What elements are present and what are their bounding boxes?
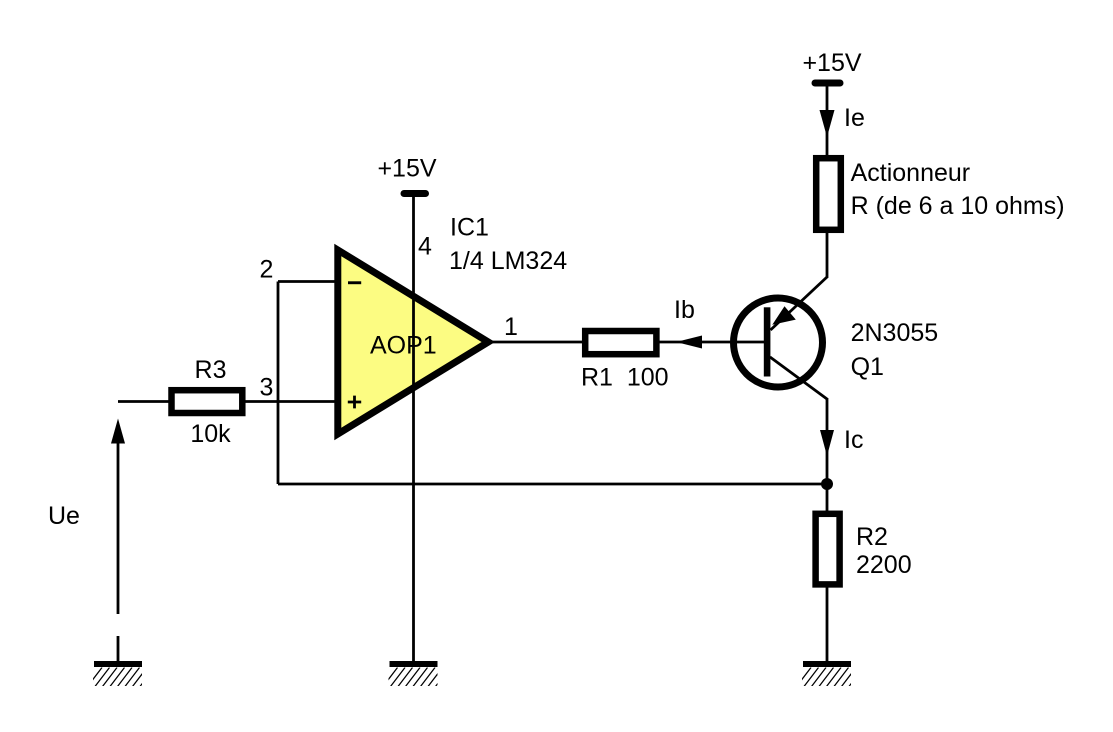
svg-text:+15V: +15V: [377, 155, 436, 183]
wire Ue arrowhead: [111, 419, 125, 444]
svg-text:Actionneur: Actionneur: [851, 159, 971, 187]
wire collector vertical to node: [826, 398, 829, 484]
wire Ue arrow vertical: [117, 430, 120, 614]
wire ground stub left: [117, 636, 120, 662]
transistor Q1 emitter diagonal: [771, 277, 828, 330]
svg-text:2N3055: 2N3055: [851, 319, 939, 347]
wire feedback vertical: [277, 282, 280, 485]
power +15V right bar: [815, 80, 840, 87]
svg-text:Ic: Ic: [844, 426, 863, 454]
power +15V op-amp bar: [404, 190, 426, 197]
wire actionneur to emitter: [826, 231, 829, 278]
op-amp U1 AOP1: [338, 250, 489, 434]
svg-text:R3: R3: [195, 356, 227, 384]
wire feedback horizontal: [278, 483, 827, 486]
svg-text:Ue: Ue: [48, 502, 80, 530]
wire R1 to base: [659, 341, 764, 344]
transistor Q1 base bar: [764, 307, 771, 376]
svg-text:4: 4: [418, 233, 432, 261]
svg-text:R2: R2: [856, 523, 888, 551]
wire Ib arrowhead: [676, 336, 702, 349]
wire node to R2: [826, 484, 829, 512]
svg-text:10k: 10k: [190, 420, 231, 448]
svg-text:1/4 LM324: 1/4 LM324: [449, 247, 567, 275]
op-amp minus input sign: [348, 281, 361, 284]
op-amp plus input sign: [348, 396, 361, 409]
transistor Q1 emitter arrowhead: [772, 306, 796, 325]
svg-text:2200: 2200: [856, 551, 912, 579]
svg-text:Ib: Ib: [674, 296, 695, 324]
svg-text:R (de 6 a 10 ohms): R (de 6 a 10 ohms): [851, 192, 1065, 220]
wire feedback from pin 2: [278, 280, 340, 283]
transistor Q1 collector diagonal: [770, 357, 827, 399]
resistor actionneur R: [816, 158, 841, 230]
wire input horizontal to R3: [118, 400, 170, 403]
resistor R2: [816, 514, 840, 585]
svg-text:AOP1: AOP1: [370, 332, 437, 360]
wire op-amp output: [488, 341, 583, 344]
wire R3 to pin 3: [245, 400, 340, 403]
wire Ic arrowhead: [820, 430, 834, 456]
svg-text:3: 3: [260, 374, 274, 402]
svg-text:IC1: IC1: [450, 214, 489, 242]
wire R2 to ground: [826, 586, 829, 662]
svg-text:2: 2: [260, 256, 274, 284]
svg-text:Q1: Q1: [851, 353, 884, 381]
svg-text:R1 100: R1 100: [581, 364, 669, 392]
transistor Q1 circle: [734, 298, 823, 387]
wire pin4 vertical through op-amp to ground: [412, 197, 415, 662]
resistor R1: [585, 331, 656, 354]
wire Ie arrowhead: [820, 110, 835, 137]
svg-text:1: 1: [504, 313, 518, 341]
svg-text:Ie: Ie: [844, 104, 865, 132]
ground left: [88, 661, 155, 687]
node junction dot: [821, 478, 833, 490]
ground right: [797, 661, 864, 687]
svg-text:+15V: +15V: [802, 49, 861, 77]
wire +15V to actionneur: [826, 86, 829, 156]
ground middle: [383, 661, 450, 687]
resistor R3: [172, 390, 243, 413]
